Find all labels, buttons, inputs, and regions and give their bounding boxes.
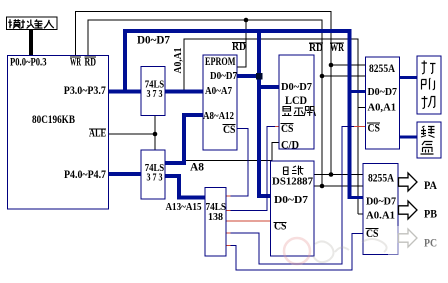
- wire RD to DS12887 and 8255A#2: [314, 185, 363, 187]
- svg-text:8255A: 8255A: [368, 171, 394, 185]
- box 8255A #2: [363, 164, 398, 255]
- bus P4: [109, 172, 143, 176]
- box 8255A #1: [366, 57, 400, 149]
- box 74LS373 #2: [141, 150, 165, 199]
- red tip CS LCD: [275, 126, 279, 128]
- wire analog input drop: [29, 29, 33, 56]
- bus stub EPROM D0~D7: [237, 74, 259, 78]
- wire CS 8255A#2 from 74LS138 out5: [226, 234, 363, 271]
- bus riser mid to EPROM LCD DS12887: [257, 29, 261, 196]
- svg-text:A0.A1: A0.A1: [366, 210, 395, 222]
- wire A8 to LCD C/D: [184, 143, 279, 161]
- box 74LS373 #1: [141, 67, 165, 116]
- svg-text:A0~A7: A0~A7: [205, 85, 232, 97]
- svg-text:A8~A12: A8~A12: [203, 110, 234, 122]
- red stubs at 74LS138 outputs: [226, 196, 231, 246]
- box keyboard: [417, 122, 441, 158]
- svg-text:D0~D7: D0~D7: [368, 86, 398, 98]
- svg-text:CS: CS: [274, 219, 287, 233]
- arrow PB: [399, 201, 418, 219]
- svg-text:RD: RD: [232, 39, 246, 53]
- bus A8~A12 to EPROM: [165, 115, 203, 163]
- svg-text:D0~D7: D0~D7: [274, 194, 309, 206]
- box EPROM: [203, 55, 237, 150]
- box 74LS138: [205, 188, 226, 257]
- svg-text:EPROM: EPROM: [205, 56, 236, 68]
- bus D0~D7 top rail with left riser and right riser: [125, 31, 350, 198]
- svg-text:RD: RD: [309, 40, 323, 54]
- svg-text:LCD: LCD: [285, 95, 307, 107]
- label 键盘 glyphs vertical: [421, 126, 435, 154]
- wire CS LCD from 74LS138 out2: [226, 127, 276, 211]
- svg-text:A8: A8: [190, 160, 204, 174]
- junction dot ALE: [153, 132, 158, 137]
- wire WR into 8255A#1: [331, 64, 366, 66]
- wire WR from 80C196KB across top and down: [76, 12, 332, 175]
- bus P3 AD0-AD7: [109, 90, 204, 94]
- wire A0.A1 tap across and down: [184, 39, 358, 214]
- wire A0.A1 into 8255A#1: [358, 107, 366, 109]
- wire RD from 80C196KB across top and down: [88, 20, 322, 186]
- svg-text:3 7 3: 3 7 3: [147, 173, 163, 184]
- svg-text:PA: PA: [424, 178, 437, 192]
- wire CS EPROM from 74LS138 out1: [226, 129, 248, 197]
- label 时钟 glyphs: [284, 166, 304, 176]
- svg-text:DS12887: DS12887: [272, 176, 313, 188]
- bus A13~A15 to 74LS138: [165, 176, 205, 198]
- box printer: [417, 56, 441, 114]
- junction dot RD/8255A#1: [320, 74, 325, 79]
- svg-text:WR: WR: [330, 40, 344, 54]
- wire WR to DS12887 and 8255A#2: [314, 174, 363, 176]
- bus stub DS12887 D0~D7: [257, 194, 271, 198]
- box LCD: [279, 55, 314, 149]
- box 80C196KB: [8, 56, 109, 210]
- svg-text:3 7 3: 3 7 3: [147, 89, 163, 100]
- watermark veil: [388, 226, 448, 260]
- watermark gray marks: [313, 239, 387, 262]
- svg-text:A0,A1: A0,A1: [173, 48, 184, 74]
- label 打印机 glyphs vertical: [422, 61, 436, 109]
- svg-text:A0,A1: A0,A1: [368, 102, 397, 114]
- svg-text:P4.0~P4.7: P4.0~P4.7: [64, 167, 106, 181]
- svg-text:ALE: ALE: [89, 126, 106, 140]
- wire ALE to latches: [109, 116, 156, 151]
- svg-text:PB: PB: [424, 207, 437, 221]
- wire RD into 8255A#1: [322, 75, 366, 77]
- wire RD branch to EPROM: [237, 20, 246, 67]
- wire CS DS12887 red from 74LS138 out3: [226, 220, 271, 222]
- bus stub 8255A#2 D0~D7: [348, 196, 364, 199]
- junction dot WR/DS12887: [329, 172, 334, 177]
- arrow PC faded: [399, 229, 418, 247]
- bus stub LCD D0~D7: [257, 85, 279, 89]
- label 模拟输入 glyphs: [8, 19, 54, 28]
- svg-text:P3.0~P3.7: P3.0~P3.7: [64, 83, 106, 97]
- wire A0.A1 into 8255A#2: [358, 213, 363, 215]
- watermark pink ring: [284, 238, 310, 264]
- wire CS 8255A#1 from 74LS138 out4: [226, 127, 355, 265]
- junction square EPROM D stub: [256, 73, 263, 80]
- svg-text:138: 138: [208, 212, 223, 223]
- svg-text:P0.0~P0.3: P0.0~P0.3: [10, 55, 47, 69]
- junction dot WR/8255A#1: [329, 63, 334, 68]
- svg-text:D0~D7: D0~D7: [210, 70, 237, 82]
- red segment CS 8255A#1: [354, 126, 366, 128]
- box DS12887: [271, 161, 315, 256]
- label 显示器 glyphs: [282, 107, 315, 117]
- bus stub 8255A#1 D0~D7: [348, 90, 366, 93]
- svg-text:D0~D7: D0~D7: [137, 33, 170, 47]
- svg-text:D0~D7: D0~D7: [281, 81, 312, 93]
- svg-text:8255A: 8255A: [369, 61, 395, 75]
- svg-text:C/D: C/D: [281, 138, 299, 152]
- junction dot RD/EPROM rail: [244, 18, 249, 23]
- svg-text:80C196KB: 80C196KB: [32, 112, 75, 126]
- junction dot RD/DS12887: [320, 184, 325, 189]
- wire printer link: [400, 76, 418, 79]
- arrow PA: [399, 173, 418, 191]
- box analog input: [7, 17, 58, 30]
- wire keyboard link: [400, 136, 418, 139]
- svg-text:D0~D7: D0~D7: [366, 196, 396, 208]
- svg-text:A13~A15: A13~A15: [166, 201, 202, 213]
